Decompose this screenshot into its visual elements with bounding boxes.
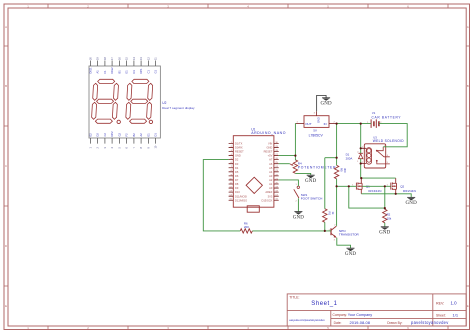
svg-text:A4: A4 (269, 170, 273, 174)
Arduino right pin numbers (275, 142, 278, 201)
Arduino right pins (274, 143, 279, 200)
relay switch (377, 147, 390, 164)
svg-text:E: E (467, 304, 469, 308)
relay U3 body (364, 144, 385, 168)
wire battery line (337, 123, 390, 125)
Arduino right pin names (261, 142, 272, 203)
relay coil pins (361, 148, 367, 163)
display pin number labels bottom (88, 145, 157, 148)
diode D1 symbol (359, 152, 363, 154)
svg-text:G2: G2 (117, 132, 121, 136)
border ticks top (48, 4, 448, 8)
svg-text:E1: E1 (146, 133, 150, 137)
svg-text:E2: E2 (88, 133, 92, 137)
svg-text:B1: B1 (117, 70, 121, 74)
svg-text:IRFZ44N: IRFZ44N (403, 189, 416, 193)
wire drain bus (361, 177, 396, 179)
display digit 1 decimal point (117, 120, 120, 123)
wire R5 feed vertical (336, 124, 338, 166)
svg-text:200A: 200A (346, 156, 353, 160)
svg-text:GND: GND (317, 117, 321, 123)
svg-text:DIG1: DIG1 (88, 67, 92, 74)
svg-text:10: 10 (154, 145, 158, 148)
svg-text:D12/MISO: D12/MISO (235, 198, 247, 202)
ground symbol regulator (322, 97, 330, 99)
svg-text:GND: GND (293, 215, 305, 220)
svg-text:Your Company: Your Company (348, 313, 372, 317)
display bottom pins (90, 138, 155, 144)
wire R1 vertical (324, 158, 326, 231)
svg-text:Drawn By:: Drawn By: (387, 321, 402, 325)
svg-text:8: 8 (139, 147, 143, 149)
svg-text:easyeda.com/pavelstoyanovdev: easyeda.com/pavelstoyanovdev (289, 319, 325, 322)
Arduino Nano U1 body (233, 136, 274, 208)
svg-text:A3: A3 (269, 174, 273, 178)
Arduino left pin names (235, 142, 247, 203)
svg-text:C1: C1 (146, 70, 150, 74)
svg-text:A5: A5 (269, 166, 273, 170)
svg-text:E1: E1 (125, 70, 129, 74)
svg-text:OUT: OUT (305, 122, 312, 126)
Arduino USB connector (247, 206, 259, 212)
border ticks left (4, 46, 8, 286)
svg-text:C: C (5, 164, 7, 168)
resistor R1 (323, 209, 327, 223)
svg-text:200: 200 (244, 225, 249, 229)
svg-text:IN: IN (324, 122, 327, 126)
display pin number labels top (88, 57, 157, 60)
Arduino logo diamond (246, 177, 262, 193)
wire gate line (337, 185, 391, 187)
svg-text:A1: A1 (269, 182, 273, 186)
display digit 2 (125, 79, 153, 123)
svg-text:1/1: 1/1 (453, 312, 459, 317)
svg-text:D2: D2 (235, 158, 239, 162)
svg-text:D1: D1 (132, 70, 136, 74)
svg-text:2: 2 (296, 200, 298, 202)
wire A6 to wiper (279, 163, 290, 165)
wire R2 to gnd (384, 223, 386, 227)
svg-text:A2: A2 (269, 178, 273, 182)
svg-text:RESET: RESET (264, 150, 273, 154)
svg-text:CAR BATTERY: CAR BATTERY (372, 115, 402, 119)
svg-text:D13/SCK: D13/SCK (261, 198, 272, 202)
regulator pin OUT (296, 123, 304, 125)
svg-text:DP2: DP2 (110, 131, 114, 137)
svg-text:D4: D4 (235, 166, 239, 170)
svg-text:A7: A7 (269, 158, 273, 162)
wire +5V to regulator (279, 124, 296, 156)
foot switch SW1 (297, 186, 299, 188)
svg-text:300: 300 (343, 168, 347, 173)
svg-text:R5: R5 (340, 168, 344, 172)
svg-text:12: 12 (146, 57, 150, 60)
svg-text:GND: GND (345, 252, 357, 257)
svg-text:TITLE:: TITLE: (289, 296, 299, 300)
wire source bus to gnd (361, 194, 411, 198)
resistor R2 (383, 209, 387, 223)
Arduino left pin numbers (229, 142, 232, 201)
svg-text:B2: B2 (132, 133, 136, 137)
svg-text:FOOT SWITCH: FOOT SWITCH (301, 197, 323, 201)
transistor Q1 IRFZ44N (356, 178, 362, 194)
regulator pin GND (316, 111, 318, 116)
svg-text:GND: GND (305, 179, 317, 184)
svg-text:Date:: Date: (334, 321, 342, 325)
svg-text:E: E (5, 304, 7, 308)
svg-text:GND: GND (406, 201, 418, 206)
svg-text:GND: GND (235, 154, 241, 158)
wire base segment right of R6 (252, 230, 331, 232)
7-segment display U2 body (89, 66, 160, 138)
wire R5 bottom to collector (336, 179, 338, 226)
potentiometer wiper arrow (290, 164, 293, 165)
junction dots (294, 123, 397, 232)
wire battery to relay loop (383, 124, 407, 147)
svg-text:GND: GND (267, 146, 273, 150)
svg-text:D9: D9 (235, 186, 239, 190)
ground symbol R2 (381, 226, 389, 228)
svg-text:AREF: AREF (265, 190, 272, 194)
svg-text:5V: 5V (313, 128, 317, 132)
wire pot bottom to gnd (295, 173, 310, 175)
regulator pin texts (305, 117, 326, 126)
svg-text:ARDUINO_NANO: ARDUINO_NANO (251, 131, 286, 135)
Arduino left pins (229, 143, 234, 200)
svg-text:pavelstoyanovdev: pavelstoyanovdev (411, 320, 449, 325)
svg-text:B: B (5, 84, 7, 88)
transistor Q3 NPN (331, 226, 336, 237)
svg-text:18: 18 (103, 57, 107, 60)
resistor R6 (240, 229, 252, 233)
svg-text:U2: U2 (162, 101, 166, 105)
svg-text:1: 1 (296, 184, 298, 186)
border ticks bottom (48, 326, 448, 330)
wire solenoid feed (360, 124, 362, 179)
svg-text:9: 9 (146, 147, 150, 149)
wire switch to gnd (297, 198, 299, 211)
svg-text:F2: F2 (125, 133, 129, 137)
ground symbol sources (407, 196, 415, 198)
svg-text:DP1: DP1 (139, 68, 143, 74)
ground symbol emitter (347, 247, 355, 249)
svg-text:A1: A1 (96, 70, 100, 74)
svg-text:16: 16 (117, 57, 121, 60)
svg-text:Company:: Company: (333, 313, 348, 317)
svg-text:10k: 10k (387, 216, 392, 220)
svg-text:R1: R1 (328, 212, 332, 216)
svg-text:RESET: RESET (235, 150, 244, 154)
svg-text:7: 7 (132, 147, 136, 149)
wire pot top (294, 156, 296, 161)
svg-text:A2: A2 (139, 133, 143, 137)
misc tiny pin numbers (296, 122, 389, 242)
svg-text:B: B (467, 84, 469, 88)
svg-text:Dual 7 segment display: Dual 7 segment display (162, 106, 195, 110)
display pin name labels top (88, 67, 157, 74)
svg-text:2019-08-08: 2019-08-08 (350, 320, 371, 325)
svg-text:19: 19 (96, 57, 100, 60)
svg-text:GND: GND (320, 102, 332, 107)
svg-text:IRFZ44N: IRFZ44N (368, 189, 381, 193)
wire gate pulldown (349, 186, 385, 209)
ground symbol switch (294, 211, 302, 213)
svg-text:3: 3 (314, 113, 316, 115)
svg-text:POTENTIOMETER: POTENTIOMETER (298, 166, 336, 170)
svg-text:D10: D10 (235, 190, 240, 194)
svg-text:+5V: +5V (268, 154, 273, 158)
svg-text:1: 1 (357, 161, 359, 163)
svg-text:D7: D7 (235, 178, 239, 182)
battery V1 symbol (371, 119, 379, 128)
ground symbol pot (307, 174, 315, 176)
svg-text:6: 6 (125, 147, 129, 149)
display pin name labels bottom (88, 131, 157, 137)
transistor Q2 IRFZ44N (391, 178, 397, 194)
svg-text:D1/TX: D1/TX (235, 142, 243, 146)
wire D2 to base loop (203, 160, 240, 231)
regulator pin numbers (297, 113, 336, 124)
svg-text:WELD SOLENOID: WELD SOLENOID (373, 139, 404, 143)
relay coil (366, 148, 371, 165)
wire regulator gnd (dark) (317, 95, 327, 111)
svg-text:15: 15 (125, 57, 129, 60)
svg-text:REV:: REV: (436, 302, 444, 306)
svg-text:1.0: 1.0 (451, 301, 458, 306)
svg-text:Sheet_1: Sheet_1 (311, 301, 337, 307)
regulator pin IN (329, 123, 337, 125)
border ticks right (466, 46, 469, 286)
svg-text:L7805CV: L7805CV (309, 133, 324, 137)
svg-text:D5: D5 (235, 170, 239, 174)
svg-text:3: 3 (334, 240, 336, 242)
svg-text:4: 4 (110, 147, 114, 149)
svg-text:D6: D6 (235, 174, 239, 178)
svg-text:C: C (467, 164, 469, 168)
svg-text:D: D (5, 244, 7, 248)
svg-text:Sheet:: Sheet: (436, 313, 446, 317)
svg-text:13: 13 (139, 57, 143, 60)
svg-text:1: 1 (88, 147, 92, 149)
resistor R5 (334, 165, 338, 179)
svg-text:3V3: 3V3 (268, 194, 273, 198)
svg-text:GND: GND (379, 231, 391, 236)
svg-text:D11/MOSI: D11/MOSI (235, 194, 247, 198)
svg-text:C2: C2 (103, 133, 107, 137)
svg-text:D2: D2 (96, 133, 100, 137)
svg-text:DIG2: DIG2 (110, 67, 114, 74)
svg-text:20: 20 (88, 57, 92, 60)
display top pins (90, 61, 155, 67)
svg-text:G1: G1 (154, 69, 158, 73)
svg-text:TRANSISTOR: TRANSISTOR (339, 233, 360, 237)
potentiometer R4 (293, 160, 297, 174)
svg-text:A: A (467, 25, 469, 29)
svg-text:2: 2 (96, 147, 100, 149)
svg-text:A: A (5, 25, 7, 29)
regulator U4 body L7805CV (304, 116, 329, 128)
display digit 2 decimal point (149, 120, 152, 123)
svg-text:F1: F1 (103, 70, 107, 74)
svg-text:D: D (467, 244, 469, 248)
title block frame (287, 294, 466, 326)
svg-text:14: 14 (132, 57, 136, 60)
svg-text:11: 11 (154, 57, 158, 60)
svg-text:D1: D1 (154, 133, 158, 137)
svg-text:A0: A0 (269, 186, 273, 190)
svg-text:D3: D3 (235, 162, 239, 166)
svg-text:5: 5 (117, 147, 121, 149)
svg-text:D8: D8 (235, 182, 239, 186)
svg-text:A6: A6 (269, 162, 273, 166)
svg-text:3: 3 (103, 147, 107, 149)
svg-text:17: 17 (110, 57, 114, 60)
svg-text:VIN: VIN (268, 142, 272, 146)
svg-text:D0/RX: D0/RX (235, 146, 243, 150)
wire emitter to gnd (337, 238, 351, 249)
display digit 1 (91, 79, 119, 123)
wire R5 junction horizontal (325, 157, 337, 159)
wire A2 to switch (279, 180, 299, 186)
